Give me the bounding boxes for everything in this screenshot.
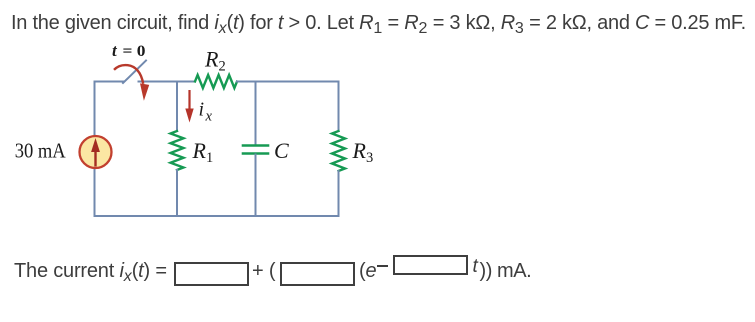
svg-text:1: 1 (206, 150, 213, 166)
wire: bottom horizontal (95, 215, 339, 217)
current source 30 mA (80, 136, 112, 168)
wire: C branch upper (255, 82, 257, 145)
current ix arrow (red) (188, 90, 190, 110)
resistor R2 (horizontal zigzag) (195, 75, 237, 88)
open paren e minus (359, 260, 376, 283)
exponent t (473, 255, 478, 278)
resistor R3 (vertical zigzag) (332, 131, 345, 171)
wire: R1 branch lower (176, 170, 178, 216)
close parens mA (480, 260, 532, 283)
svg-text:t: t (112, 41, 118, 60)
plus open paren (252, 260, 275, 283)
svg-text:i: i (199, 99, 205, 121)
wire: top segment switch to R2 (139, 81, 196, 83)
wire: left vertical (source branch) (94, 82, 96, 217)
svg-text:= 0: = 0 (123, 43, 146, 60)
wire: C branch lower (255, 155, 257, 217)
svg-text:3: 3 (366, 150, 373, 166)
svg-text:x: x (205, 109, 213, 125)
svg-text:R: R (204, 47, 219, 72)
svg-text:R: R (352, 138, 367, 163)
switch closing arc (red) (114, 65, 143, 84)
svg-text:C: C (274, 138, 289, 163)
wire: R1 branch upper (176, 82, 178, 132)
answer box 3 (exponent) (393, 255, 468, 275)
wire: right vertical upper (R3 branch) (338, 82, 340, 132)
answer box 1 (174, 262, 249, 286)
svg-text:2: 2 (219, 59, 226, 75)
svg-text:30 mA: 30 mA (15, 138, 66, 162)
wire: top left segment to switch (95, 81, 124, 83)
answer box 2 (280, 262, 355, 286)
wire: top segment R2 to right corner (237, 81, 339, 83)
capacitor C bottom plate (243, 152, 268, 155)
capacitor C top plate (243, 144, 268, 147)
wire: right vertical lower (338, 171, 340, 216)
svg-text:R: R (192, 138, 207, 163)
resistor R1 (vertical zigzag) (171, 131, 184, 170)
answer sentence (14, 260, 167, 284)
switch blade t=0 (123, 61, 146, 84)
question text (11, 12, 746, 36)
